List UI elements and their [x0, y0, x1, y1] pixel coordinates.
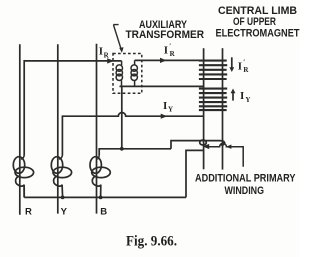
arrowhead on I_Y line [161, 114, 168, 119]
wire: R CT secondary bottom lead to return bus [23, 188, 25, 198]
svg-text:R: R [25, 206, 32, 217]
CT on Y phase [51, 155, 71, 198]
svg-text:R: R [170, 50, 176, 58]
svg-text:I: I [164, 44, 168, 56]
label I_Y [163, 100, 173, 114]
leader arrow from ADDITIONAL PRIMARY WINDING label (with hop and two arrowheads) [203, 143, 244, 166]
wire: additional primary winding upper turn [171, 141, 225, 149]
wire: B phase main vertical [96, 44, 98, 214]
svg-text:Y: Y [245, 96, 250, 104]
label: CENTRAL LIMB OF UPPER ELECTROMAGNET [216, 5, 300, 40]
svg-text:ELECTROMAGNET: ELECTROMAGNET [216, 28, 300, 40]
svg-text:I: I [99, 46, 103, 58]
svg-text:I: I [163, 100, 167, 112]
svg-text:OF UPPER: OF UPPER [233, 16, 276, 28]
svg-text:CENTRAL LIMB: CENTRAL LIMB [218, 5, 297, 17]
CT on B phase [90, 155, 110, 198]
CT on R phase [13, 155, 33, 198]
svg-text:R: R [243, 66, 249, 74]
svg-text:Y: Y [168, 106, 173, 114]
svg-text:WINDING: WINDING [225, 185, 265, 197]
junction dot: B secondary on bus [99, 196, 103, 200]
label: ADDITIONAL PRIMARY WINDING [195, 173, 296, 197]
svg-text:TRANSFORMER: TRANSFORMER [126, 29, 205, 41]
phase terminal labels R Y B [25, 206, 107, 217]
down arrow I_R' beside limb [229, 57, 234, 72]
leader arrow from AUXILIARY TRANSFORMER label to transformer [113, 25, 123, 53]
arrowhead on I_R' line [160, 58, 167, 63]
wire: I_R' line from transformer secondary to central limb [135, 59, 204, 61]
transformer secondary coil [131, 60, 137, 86]
label I_R' (right) [238, 58, 250, 73]
central limb left rail [203, 48, 205, 169]
central limb winding bars [199, 61, 227, 111]
wire: B CT secondary lead up and line to additional-winding riser [99, 149, 171, 155]
label: AUXILIARY TRANSFORMER [126, 19, 205, 41]
svg-text:Y: Y [61, 206, 68, 217]
svg-text:I: I [240, 90, 244, 102]
svg-text:B: B [100, 206, 107, 217]
svg-text:I: I [238, 60, 242, 72]
transformer primary coil [116, 61, 122, 87]
label I_R [99, 46, 110, 60]
wire: R phase main vertical [19, 44, 21, 215]
loop of additional winding around left rail [200, 140, 207, 145]
arrowhead on I_R line [107, 58, 114, 63]
wire: riser from secondary return bus to limb bottom [186, 150, 204, 197]
wire: transformer coils common bottom line to central limb [120, 85, 204, 87]
svg-text:Fig. 9.66.: Fig. 9.66. [126, 234, 177, 250]
junction dot: transformer lead meets B secondary line [120, 147, 124, 151]
caption: Fig. 9.66. [126, 234, 177, 250]
junction dot: Y secondary on bus [61, 196, 65, 200]
wire: CT secondaries common return bus [24, 196, 186, 198]
label I_Y (right) [240, 90, 250, 104]
up arrow I_Y beside limb [231, 89, 236, 101]
wire: transformer bottom lead down to B secondary line [121, 86, 123, 148]
svg-text:R: R [104, 52, 110, 60]
central limb right rail [222, 48, 224, 169]
wire: R CT secondary lead up and I_R horizontal line to transformer [24, 61, 121, 155]
auxiliary transformer dashed box [113, 54, 142, 94]
wire: Y phase main vertical [57, 44, 59, 213]
label I_R' (top) [164, 43, 176, 59]
wire: Y CT secondary lead up and I_Y horizontal line to central limb (hop over transformer lead) [62, 113, 203, 156]
svg-text:ADDITIONAL PRIMARY: ADDITIONAL PRIMARY [195, 173, 296, 185]
